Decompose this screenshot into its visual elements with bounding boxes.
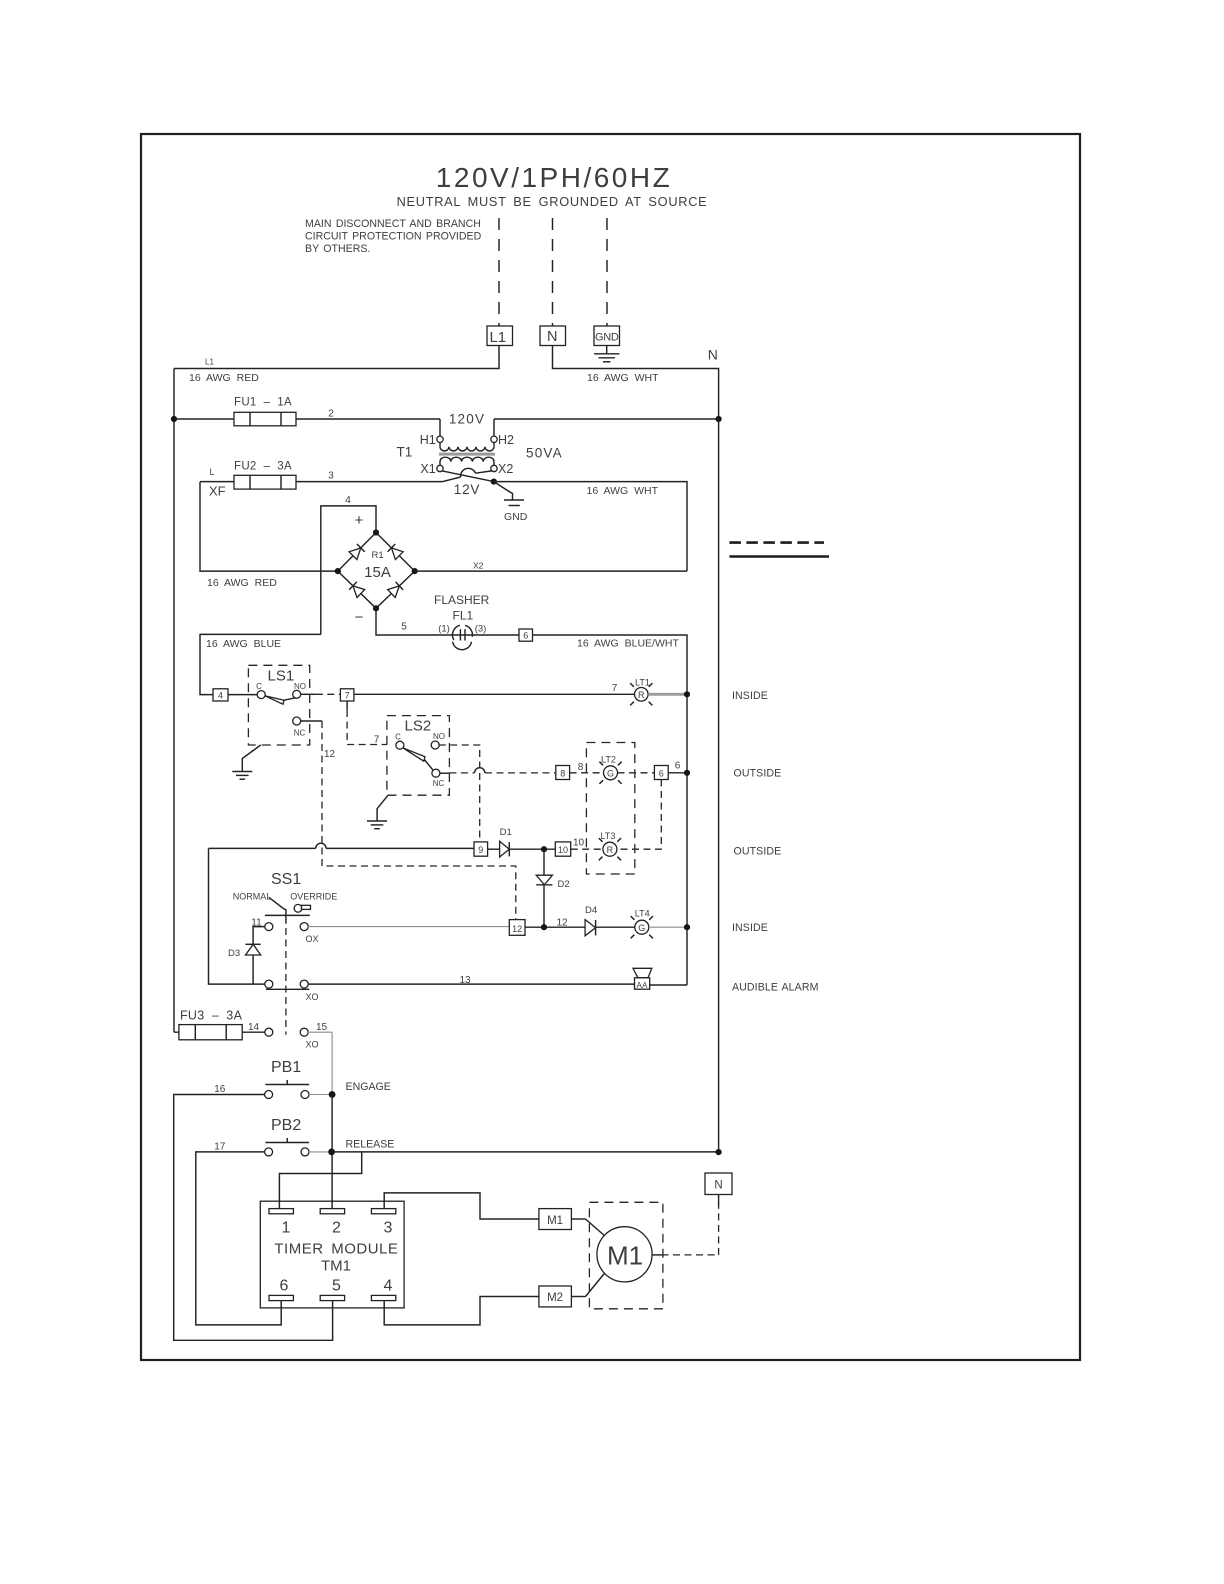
wire M1 box to motor — [571, 1219, 604, 1236]
svg-text:ENGAGE: ENGAGE — [346, 1081, 391, 1093]
svg-text:D3: D3 — [228, 948, 240, 959]
svg-text:T1: T1 — [397, 445, 413, 460]
key symbol SS1 — [294, 904, 310, 912]
svg-text:16 AWG BLUE/WHT: 16 AWG BLUE/WHT — [577, 638, 679, 650]
wire 13 — [308, 983, 635, 985]
junction rail LT1 — [684, 691, 690, 697]
wire 8 to LT2 — [570, 772, 604, 774]
svg-text:GND: GND — [504, 511, 528, 523]
svg-text:6: 6 — [675, 761, 681, 772]
SS1 pointer line — [269, 897, 286, 923]
svg-text:4: 4 — [218, 690, 223, 700]
svg-text:FU2 – 3A: FU2 – 3A — [234, 461, 292, 473]
wire X2 from bridge right — [415, 570, 687, 572]
alarm AA horn — [633, 968, 652, 977]
svg-text:NO: NO — [433, 732, 445, 741]
svg-text:10: 10 — [573, 838, 585, 849]
svg-text:+: + — [355, 512, 364, 529]
svg-text:4: 4 — [384, 1278, 393, 1295]
terminal 8 — [556, 766, 570, 780]
svg-text:C: C — [395, 733, 401, 742]
wire M2 box to motor — [571, 1274, 604, 1297]
diode D4 — [585, 920, 635, 936]
svg-text:1: 1 — [282, 1220, 291, 1237]
svg-text:16 AWG WHT: 16 AWG WHT — [587, 485, 659, 497]
wire 12 dashed down — [322, 721, 516, 920]
svg-text:XO: XO — [306, 1040, 319, 1050]
junction left rail / FU1 — [171, 416, 177, 422]
SS1 dashed centerline — [285, 928, 287, 1035]
wire X1 to center-tap junction — [442, 471, 494, 482]
svg-text:LS2: LS2 — [405, 718, 432, 735]
svg-text:6: 6 — [523, 631, 528, 641]
TM pin 1 — [269, 1209, 293, 1214]
svg-text:15A: 15A — [364, 564, 391, 581]
wire N rail down — [718, 419, 720, 1153]
junction N rail top — [716, 416, 722, 422]
terminal 9 — [474, 842, 488, 856]
terminal 12 — [509, 920, 525, 936]
junction N release — [716, 1149, 722, 1155]
TM pin 4 — [371, 1295, 395, 1300]
svg-text:NEUTRAL MUST BE GROUNDED AT SO: NEUTRAL MUST BE GROUNDED AT SOURCE — [397, 194, 708, 209]
svg-text:7: 7 — [374, 735, 380, 746]
terminal 7 — [340, 689, 354, 701]
svg-text:(3): (3) — [475, 624, 487, 635]
wire XF down left — [200, 482, 338, 571]
wire engage down — [331, 1095, 333, 1209]
svg-text:NO: NO — [294, 682, 306, 691]
wire 16 AWG BLUE run — [200, 634, 321, 694]
lamp LT3 — [599, 838, 621, 860]
motor M1 dashed box — [589, 1202, 663, 1309]
SS1 contact XO-left — [265, 980, 273, 988]
svg-text:5: 5 — [332, 1278, 341, 1295]
svg-text:N: N — [547, 329, 557, 345]
wire pin3 to M1 — [384, 1193, 539, 1219]
wire left rail down — [173, 369, 175, 1033]
wire 6b down to LT3 — [617, 780, 661, 850]
diode D1 — [488, 841, 556, 857]
bridge rectifier R1 diamond — [338, 533, 415, 609]
wire dashed GND drop — [606, 218, 608, 326]
wire 11 to D3 — [253, 927, 265, 945]
svg-text:C: C — [256, 682, 262, 691]
fuse FU3 — [174, 1025, 242, 1040]
terminal 10 — [555, 842, 570, 856]
wire N to right rail — [553, 346, 719, 420]
svg-text:SS1: SS1 — [271, 871, 301, 888]
svg-text:−: − — [355, 609, 364, 626]
svg-text:R: R — [638, 690, 645, 700]
wire 17 — [196, 1152, 281, 1325]
svg-text:PB2: PB2 — [271, 1117, 301, 1134]
svg-text:120V: 120V — [449, 412, 485, 427]
svg-text:FU1 – 1A: FU1 – 1A — [234, 397, 292, 409]
terminal N — [540, 326, 566, 346]
wire center tap to right return — [494, 482, 687, 571]
ground LS1 — [232, 745, 260, 779]
wire LT1 to rail — [648, 693, 687, 696]
svg-text:RELEASE: RELEASE — [346, 1139, 395, 1151]
svg-text:14: 14 — [248, 1022, 260, 1033]
wire LS1 NO to 7 — [300, 693, 340, 695]
terminal 4 — [213, 689, 228, 701]
svg-text:X2: X2 — [473, 561, 484, 571]
junction 12 D2 — [541, 924, 547, 930]
svg-text:M1: M1 — [607, 1241, 643, 1271]
svg-text:9: 9 — [478, 845, 483, 855]
svg-text:MAIN DISCONNECT AND BRANCH: MAIN DISCONNECT AND BRANCH — [305, 218, 481, 230]
svg-text:LT3: LT3 — [601, 831, 616, 841]
wire H2 to N rail — [494, 418, 719, 420]
svg-text:L1: L1 — [205, 358, 214, 367]
svg-text:XF: XF — [209, 484, 226, 499]
border frame — [141, 134, 1080, 1360]
diode bridge bottom-left — [349, 582, 365, 598]
TM pin 6 — [269, 1295, 293, 1300]
junction bridge bottom — [373, 605, 379, 611]
transformer T1 — [437, 419, 497, 472]
svg-text:16 AWG BLUE: 16 AWG BLUE — [206, 638, 281, 650]
wire release row — [332, 1151, 719, 1153]
limit switch LS2 box — [387, 716, 450, 796]
svg-text:D4: D4 — [585, 905, 597, 916]
svg-text:6: 6 — [280, 1278, 289, 1295]
svg-text:INSIDE: INSIDE — [732, 922, 768, 934]
svg-text:BY OTHERS.: BY OTHERS. — [305, 243, 370, 255]
wire OX to 12 — [308, 926, 509, 928]
svg-text:16 AWG RED: 16 AWG RED — [189, 372, 259, 384]
svg-text:TM1: TM1 — [321, 1258, 351, 1275]
svg-text:8: 8 — [560, 769, 565, 779]
ground LS2 — [367, 795, 388, 829]
lamp LT2 — [599, 762, 621, 784]
wire 3 FU2 row — [200, 481, 443, 483]
svg-text:NC: NC — [294, 729, 306, 738]
wire 4 to LS1 — [228, 694, 258, 696]
svg-text:16: 16 — [214, 1084, 226, 1095]
terminal N bottom — [705, 1173, 732, 1195]
flasher FL1 — [452, 625, 472, 649]
legend dashed line — [729, 541, 824, 544]
diode D2 — [536, 849, 552, 927]
diode bridge bottom-right — [388, 582, 404, 598]
wire dashed N drop — [552, 218, 554, 326]
wire 16 — [174, 1095, 333, 1341]
wire hop at transformer crossing — [461, 468, 476, 477]
wire 2 FU1 row — [174, 418, 440, 420]
svg-text:13: 13 — [459, 975, 471, 986]
wire LS1 NC to 12 — [300, 720, 322, 722]
junction bridge right — [412, 568, 418, 574]
lamp LT1 — [630, 683, 652, 705]
ground symbol below GND — [594, 346, 619, 362]
wire LT4 to rail — [649, 926, 687, 928]
wire 6 to blue/wht rail — [533, 635, 688, 985]
svg-text:NC: NC — [433, 779, 445, 788]
wire LS2 NC to 8 with hop — [439, 768, 555, 774]
SS1 contact 15 — [300, 1028, 308, 1036]
diode D3 — [246, 944, 261, 984]
svg-text:4: 4 — [345, 495, 351, 506]
wire 9 left rail down — [209, 848, 266, 984]
wire pin4 to M2 — [384, 1297, 539, 1325]
diode bridge top-left — [349, 544, 365, 560]
svg-text:M1: M1 — [547, 1215, 563, 1227]
svg-text:(1): (1) — [438, 624, 450, 635]
timer module TM1 box — [260, 1201, 404, 1308]
wire 9 row with hop — [209, 843, 475, 848]
fuse FU2 — [234, 475, 296, 489]
svg-text:PB1: PB1 — [271, 1059, 301, 1076]
wire X2 crossing to left with hop — [443, 471, 492, 482]
svg-text:3: 3 — [384, 1220, 393, 1237]
svg-text:CIRCUIT PROTECTION PROVIDED: CIRCUIT PROTECTION PROVIDED — [305, 231, 482, 243]
wire 6b to rail — [668, 772, 687, 774]
svg-text:16 AWG RED: 16 AWG RED — [207, 577, 277, 589]
wire 5 from bridge minus — [376, 608, 519, 635]
svg-text:LT1: LT1 — [635, 678, 650, 688]
limit switch LS2 contacts — [396, 741, 440, 777]
svg-text:50VA: 50VA — [526, 446, 563, 461]
SS1 contact 11 — [265, 923, 273, 931]
wire PB2 to release junction — [309, 1151, 332, 1153]
wire dashed L1 drop — [498, 218, 500, 326]
SS1 bar — [265, 914, 310, 916]
wire L1 to left rail — [174, 346, 499, 369]
wire 14 — [242, 1031, 265, 1033]
svg-text:OUTSIDE: OUTSIDE — [734, 846, 782, 858]
connector M1 — [539, 1209, 572, 1230]
svg-text:NORMAL: NORMAL — [233, 891, 272, 901]
wire release to pin1 — [279, 1152, 361, 1209]
svg-text:FL1: FL1 — [453, 609, 474, 623]
terminal 6 — [519, 629, 533, 641]
svg-text:12: 12 — [324, 749, 336, 760]
svg-text:M2: M2 — [547, 1292, 563, 1304]
svg-text:H1: H1 — [420, 433, 436, 447]
svg-text:FLASHER: FLASHER — [434, 593, 490, 607]
svg-text:XO: XO — [306, 992, 319, 1002]
alarm AA box — [635, 978, 650, 990]
wire 4 from bridge plus — [321, 506, 376, 635]
wire 12 to D4 — [525, 926, 585, 928]
motor M1 — [597, 1227, 652, 1282]
svg-text:12: 12 — [512, 924, 522, 934]
junction RELEASE — [328, 1149, 335, 1156]
svg-text:16 AWG WHT: 16 AWG WHT — [587, 372, 659, 384]
ground symbol T1 — [504, 500, 524, 506]
svg-text:R1: R1 — [372, 550, 384, 561]
svg-text:7: 7 — [612, 683, 618, 694]
junction bridge top — [373, 529, 379, 535]
junction ENGAGE — [329, 1091, 336, 1098]
svg-text:TIMER MODULE: TIMER MODULE — [274, 1241, 398, 1258]
pushbutton PB2 — [265, 1138, 310, 1156]
TM pin 5 — [320, 1295, 344, 1300]
svg-text:17: 17 — [214, 1142, 226, 1153]
svg-text:12V: 12V — [454, 482, 480, 497]
svg-text:2: 2 — [332, 1220, 341, 1237]
svg-text:LT2: LT2 — [601, 755, 616, 765]
svg-text:N: N — [708, 346, 718, 362]
diode bridge top-right — [388, 544, 404, 560]
svg-text:5: 5 — [401, 622, 407, 633]
svg-text:12: 12 — [557, 918, 569, 929]
svg-text:D2: D2 — [558, 879, 570, 890]
svg-text:INSIDE: INSIDE — [732, 690, 768, 702]
wire 15 down to engage — [308, 1032, 332, 1094]
svg-text:LS1: LS1 — [268, 668, 295, 685]
wire LT2 to 6 — [618, 772, 655, 774]
svg-text:AA: AA — [636, 981, 648, 990]
note MAIN DISCONNECT — [305, 218, 482, 255]
svg-text:8: 8 — [578, 762, 584, 773]
junction D1 D2 — [541, 846, 547, 852]
limit switch LS1 contacts — [257, 690, 301, 725]
svg-text:OX: OX — [306, 934, 319, 944]
svg-text:GND: GND — [595, 332, 619, 344]
junction rail 6 — [684, 770, 690, 776]
pushbutton PB1 — [265, 1080, 310, 1099]
wire AA to rail — [649, 984, 687, 986]
svg-text:H2: H2 — [498, 433, 514, 447]
legend solid line — [729, 555, 829, 558]
terminal L1 — [487, 326, 513, 346]
fuse FU1 — [234, 412, 296, 426]
svg-text:LT4: LT4 — [635, 909, 650, 919]
wire motor to N dashes — [652, 1195, 719, 1255]
svg-text:L: L — [210, 467, 215, 477]
TM pin 2 — [320, 1209, 344, 1214]
svg-text:3: 3 — [328, 471, 334, 482]
terminal 6b — [654, 766, 668, 780]
connector M2 — [539, 1286, 572, 1307]
svg-text:15: 15 — [316, 1022, 328, 1033]
svg-text:OUTSIDE: OUTSIDE — [734, 768, 782, 780]
lamp box LT2 LT3 — [586, 743, 634, 875]
SS1 XO bar — [266, 988, 310, 990]
svg-text:X1: X1 — [420, 462, 435, 476]
terminal GND — [594, 326, 620, 346]
svg-text:2: 2 — [328, 409, 334, 420]
junction bridge left — [335, 568, 341, 574]
svg-text:D1: D1 — [500, 827, 512, 838]
svg-text:X2: X2 — [498, 462, 513, 476]
SS1 contact XO-right — [300, 980, 308, 988]
svg-text:L1: L1 — [489, 329, 506, 346]
svg-text:10: 10 — [558, 845, 568, 855]
svg-text:FU3 – 3A: FU3 – 3A — [180, 1009, 243, 1023]
limit switch LS1 box — [248, 665, 309, 745]
TM pin 3 — [371, 1209, 395, 1214]
svg-text:G: G — [607, 768, 614, 778]
wire 10 to LT3 — [571, 848, 603, 850]
svg-text:6: 6 — [659, 769, 664, 779]
svg-text:120V/1PH/60HZ: 120V/1PH/60HZ — [436, 162, 672, 193]
lamp LT4 — [631, 916, 653, 938]
wire PB1 to engage junction — [309, 1094, 332, 1096]
svg-text:7: 7 — [345, 690, 350, 700]
svg-text:AUDIBLE ALARM: AUDIBLE ALARM — [732, 982, 819, 994]
wire 7 below terminal down — [347, 701, 387, 745]
svg-text:R: R — [607, 845, 614, 855]
wire center tap to GND — [494, 482, 513, 500]
svg-text:N: N — [714, 1180, 722, 1192]
svg-text:OVERRIDE: OVERRIDE — [290, 891, 337, 901]
SS1 contact OX — [300, 923, 308, 931]
wire LS2 NO down to 9 — [439, 745, 480, 842]
svg-text:G: G — [638, 923, 645, 933]
junction center tap — [491, 479, 497, 485]
SS1 contact 14 — [265, 1028, 273, 1036]
wire 7 to LT1 — [354, 693, 635, 695]
junction rail LT4 — [684, 924, 690, 930]
